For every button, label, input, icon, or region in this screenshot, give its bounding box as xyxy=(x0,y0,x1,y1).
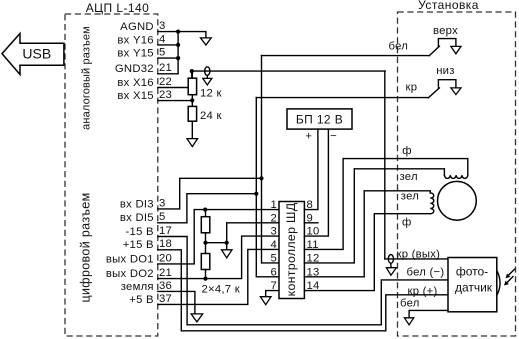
analog pin numbers xyxy=(159,20,172,101)
wire вх DI3 up-over to node xyxy=(158,178,262,209)
junction dots on AGND bus xyxy=(176,30,180,61)
digital pin labels xyxy=(106,198,154,305)
svg-text:3: 3 xyxy=(270,226,277,238)
svg-text:-15 В: -15 В xyxy=(126,226,154,238)
wire вых DO2 over to controller pin 3 xyxy=(158,236,279,279)
pin 21 GND32 wire xyxy=(158,32,178,74)
svg-text:22: 22 xyxy=(159,76,172,88)
label аналоговый разъем xyxy=(81,26,93,130)
label 24 к xyxy=(200,110,222,122)
svg-text:низ: низ xyxy=(436,65,454,77)
svg-text:7: 7 xyxy=(270,280,277,292)
svg-text:бел: бел xyxy=(389,41,409,53)
svg-text:бел (−): бел (−) xyxy=(407,267,445,279)
svg-text:36: 36 xyxy=(159,280,172,292)
svg-text:вх X16: вх X16 xyxy=(117,77,153,89)
junction DI5 node xyxy=(254,192,258,196)
wire вх DI5 up-over to node xyxy=(158,194,256,223)
controller pin 7 ground xyxy=(260,291,279,305)
pin 9 stub xyxy=(304,222,318,224)
svg-text:вх X15: вх X15 xyxy=(117,90,153,102)
svg-text:аналоговый разъем: аналоговый разъем xyxy=(81,26,93,130)
wire bel to upper switch xyxy=(262,55,430,57)
svg-text:вх Y16: вх Y16 xyxy=(117,34,153,46)
wire вых DO1 up to controller pin 1 xyxy=(158,210,279,264)
svg-text:+15 В: +15 В xyxy=(123,239,154,251)
mid rail of divider xyxy=(206,242,227,244)
label кр xyxy=(406,82,418,94)
resistor 12k xyxy=(188,71,196,100)
ADC dashed enclosure АЦП L-140 xyxy=(65,14,158,336)
svg-text:3: 3 xyxy=(159,197,166,209)
svg-text:цифровой разъем: цифровой разъем xyxy=(79,192,93,302)
label кр (вых) xyxy=(397,249,441,261)
controller right pin numbers xyxy=(307,199,320,292)
resistor 24k xyxy=(188,100,196,138)
switch верх xyxy=(429,25,461,55)
svg-text:вых DO1: вых DO1 xyxy=(106,253,154,265)
svg-text:кр (вых): кр (вых) xyxy=(397,249,441,261)
switch низ xyxy=(429,65,462,97)
digital pin numbers xyxy=(159,197,172,304)
analog pin labels xyxy=(115,21,154,102)
connector shield ground at sensor xyxy=(386,263,396,275)
Installation dashed enclosure Установка xyxy=(398,12,516,336)
svg-text:контроллер ШД: контроллер ШД xyxy=(284,202,298,296)
wire pin 12 to motor zel1 xyxy=(304,169,444,263)
label кр (+) xyxy=(408,285,438,297)
svg-text:вых DO2: вых DO2 xyxy=(106,268,154,280)
svg-text:кр (+): кр (+) xyxy=(408,285,438,297)
pin 5 wire xyxy=(158,57,178,59)
svg-text:вх DI5: вх DI5 xyxy=(120,212,154,224)
pin 22 вх X16 wire xyxy=(158,71,192,87)
label Установка xyxy=(418,0,479,12)
USB arrow xyxy=(2,34,64,75)
resistor R_a 4.7k xyxy=(201,210,210,243)
svg-text:5: 5 xyxy=(270,252,277,264)
svg-text:AGND: AGND xyxy=(120,21,154,33)
junction R_a bottom xyxy=(203,241,207,245)
svg-text:датчик: датчик xyxy=(455,281,493,295)
junction DO1/R_a/pin1 xyxy=(203,208,207,212)
PSU box БП 12 В xyxy=(287,109,352,129)
svg-text:зел: зел xyxy=(401,190,419,202)
svg-text:бел: бел xyxy=(400,298,420,310)
wire бел to chassis ground xyxy=(404,310,448,324)
label 2x4,7 к xyxy=(202,284,240,296)
svg-text:БП 12 В: БП 12 В xyxy=(296,112,343,126)
wire PSU- to controller pin 10 xyxy=(304,129,328,236)
svg-text:GND32: GND32 xyxy=(115,63,154,75)
svg-text:18: 18 xyxy=(159,238,172,250)
svg-text:ф: ф xyxy=(402,145,412,157)
svg-text:6: 6 xyxy=(270,266,277,278)
label бел (−) xyxy=(407,267,445,279)
wire pin 13 to motor zel2 xyxy=(304,191,430,277)
connector shield ground xyxy=(203,75,212,85)
svg-text:37: 37 xyxy=(159,293,172,305)
svg-text:+5 В: +5 В xyxy=(129,294,154,306)
svg-text:верх: верх xyxy=(433,25,458,37)
label АЦП L-140 xyxy=(86,1,150,15)
label 12 к xyxy=(200,88,222,100)
svg-text:+: + xyxy=(305,131,312,143)
wire kr to lower switch xyxy=(256,97,428,99)
junction DI3 node xyxy=(259,176,263,180)
label контроллер ШД xyxy=(284,202,298,296)
svg-text:21: 21 xyxy=(159,62,172,74)
svg-text:кр: кр xyxy=(406,82,418,94)
svg-text:20: 20 xyxy=(159,252,172,264)
svg-text:12 к: 12 к xyxy=(200,88,222,100)
label бел xyxy=(400,298,420,310)
svg-text:2: 2 xyxy=(270,212,277,224)
wire PSU+ to controller pin 8 xyxy=(304,129,318,210)
svg-text:21: 21 xyxy=(159,267,172,279)
svg-text:23: 23 xyxy=(159,89,172,101)
wire +15V down to bottom rail B and up to photo kr(+) xyxy=(158,250,448,331)
svg-text:2×4,7 к: 2×4,7 к xyxy=(202,284,240,296)
ground at 24k xyxy=(187,139,198,147)
svg-text:ф: ф xyxy=(402,217,412,229)
ground at divider xyxy=(222,243,233,258)
photodetector lens xyxy=(497,271,500,296)
controller left pin numbers xyxy=(270,199,277,292)
svg-text:АЦП L-140: АЦП L-140 xyxy=(86,1,150,15)
junction X16/12k xyxy=(190,69,194,73)
junction 12k/24k xyxy=(190,98,194,102)
wire photodetector output to divider net xyxy=(385,258,448,260)
resistor R_b 4.7k xyxy=(201,243,210,279)
ground atземля xyxy=(191,314,203,322)
pin 4 wire xyxy=(158,44,178,46)
kr net drop from signal wire xyxy=(384,71,386,259)
X16 signal wire to connector xyxy=(192,70,385,72)
connector ellipse on sensor output xyxy=(388,255,393,264)
svg-text:зел: зел xyxy=(400,171,418,183)
junction R_b/DO2 xyxy=(203,277,207,281)
label бел xyxy=(389,41,409,53)
photodetector box xyxy=(448,258,497,312)
svg-text:USB: USB xyxy=(22,46,51,62)
svg-text:фото-: фото- xyxy=(456,265,488,279)
light ray arrows xyxy=(504,269,515,285)
svg-text:24 к: 24 к xyxy=(200,110,222,122)
svg-text:5: 5 xyxy=(159,211,166,223)
motor wire labels xyxy=(402,145,412,157)
svg-text:4: 4 xyxy=(159,33,166,45)
svg-text:3: 3 xyxy=(159,20,166,32)
connector ellipse on signal wire xyxy=(205,67,210,76)
svg-text:вх DI3: вх DI3 xyxy=(120,198,154,210)
wire pin 11 to motor phase f1 xyxy=(304,159,467,250)
controller box xyxy=(279,202,304,299)
wire pin 14 to motor winding2 bottom xyxy=(304,214,430,291)
svg-text:4: 4 xyxy=(270,239,277,251)
svg-text:Установка: Установка xyxy=(418,0,479,12)
wire mid rail to controller pin 2 xyxy=(227,223,279,243)
wire земля down to chassis ground xyxy=(158,291,195,314)
motor winding 2 (left) xyxy=(430,193,434,214)
svg-text:1: 1 xyxy=(270,199,277,211)
PSU polarity labels xyxy=(305,131,312,143)
svg-text:5: 5 xyxy=(159,47,166,59)
label цифровой разъем xyxy=(79,192,93,302)
svg-text:вх Y15: вх Y15 xyxy=(117,48,153,60)
wire +5V over-up to controller pin 4 xyxy=(158,249,279,304)
pin 3 AGND wire xyxy=(158,32,206,38)
junction divider ground tap xyxy=(225,241,229,245)
svg-text:−: − xyxy=(330,130,337,142)
wire DI5 node down to controller pin 6 xyxy=(256,98,279,277)
wire DI3 node down to controller pin 5 xyxy=(262,56,280,263)
motor stepper circle xyxy=(438,181,477,220)
pin 23 вх X15 wire xyxy=(158,100,193,102)
motor winding 1 (top) xyxy=(444,175,467,178)
svg-text:земля: земля xyxy=(121,281,154,293)
svg-text:17: 17 xyxy=(159,225,172,237)
ground at AGND xyxy=(201,38,212,45)
wire -15V down to bottom rail A and up to photo bel(-) xyxy=(158,237,448,325)
